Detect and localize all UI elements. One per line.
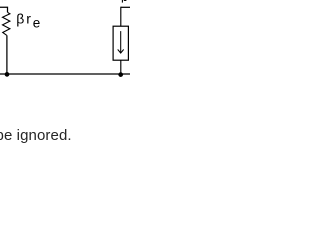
svg-text:β: β [16, 10, 24, 26]
current source arrow [118, 31, 124, 53]
wire top-left horizontal into resistor [0, 7, 8, 12]
svg-text:r: r [26, 10, 31, 26]
current source I (box) [113, 26, 128, 60]
wire current source bottom lead [120, 60, 122, 74]
node junction dot left [5, 72, 10, 77]
caption text (cropped): be ignored. [0, 128, 72, 143]
node junction dot right [118, 72, 123, 77]
cut-off label fragment top right [121, 0, 123, 3]
wire main horizontal bottom [0, 73, 130, 75]
svg-text:e: e [33, 15, 41, 30]
wire current source top lead [120, 7, 122, 27]
resistor R (beta re) zigzag [3, 12, 10, 35]
wire resistor bottom lead [6, 35, 8, 74]
wire top-right horizontal [121, 6, 130, 8]
